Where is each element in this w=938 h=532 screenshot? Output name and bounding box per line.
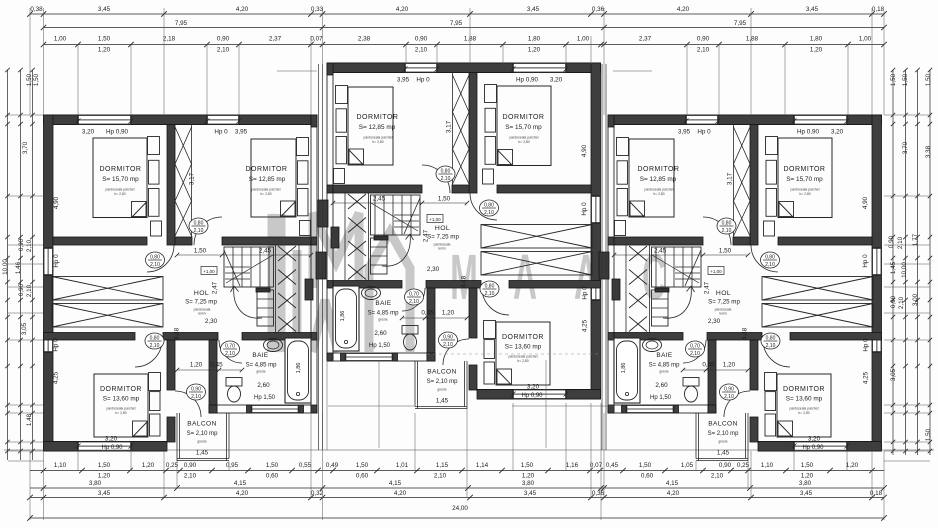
svg-text:3,70: 3,70 <box>22 141 29 154</box>
bed bedroom1 A <box>93 138 147 218</box>
svg-text:S= 7,25 mp: S= 7,25 mp <box>708 299 740 306</box>
svg-text:1,45: 1,45 <box>436 398 449 405</box>
svg-text:0,07: 0,07 <box>590 462 603 469</box>
svg-text:4,20: 4,20 <box>394 490 407 497</box>
svg-text:1,50: 1,50 <box>26 73 33 86</box>
sink A <box>264 339 283 352</box>
svg-text:Hp 0: Hp 0 <box>53 254 60 268</box>
unit C balcony walls <box>747 413 749 461</box>
unit C bathroom bottom wall <box>614 405 716 413</box>
svg-text:A: A <box>513 241 537 313</box>
svg-text:0,36: 0,36 <box>592 490 605 497</box>
svg-text:2,45: 2,45 <box>654 248 667 255</box>
svg-text:4,15: 4,15 <box>234 480 247 487</box>
svg-text:2,10: 2,10 <box>434 473 447 480</box>
svg-text:0,07: 0,07 <box>310 36 323 43</box>
svg-text:HOL: HOL <box>194 290 209 297</box>
svg-text:2,10: 2,10 <box>443 342 453 348</box>
svg-text:2,10: 2,10 <box>217 47 230 54</box>
unit A bottom exterior wall <box>44 441 168 443</box>
unit A exterior top wall <box>44 114 312 116</box>
svg-text:S= 2,10 mp: S= 2,10 mp <box>708 431 740 437</box>
svg-text:DORMITOR: DORMITOR <box>100 386 142 393</box>
svg-text:h= 2,80: h= 2,80 <box>517 359 529 363</box>
terrace edge lines <box>328 405 414 407</box>
unit B window bottom (1,50) <box>513 390 566 400</box>
left dimension band <box>7 70 9 460</box>
svg-text:3,38: 3,38 <box>925 145 932 158</box>
svg-text:DORMITOR: DORMITOR <box>246 166 288 173</box>
expansion joint A-B <box>318 64 320 450</box>
bathtub B <box>333 286 359 351</box>
unit C bathroom window (bottom) <box>627 405 674 413</box>
svg-text:Hp 0: Hp 0 <box>214 129 228 136</box>
svg-text:HOL: HOL <box>435 225 450 232</box>
svg-text:Hp 0,90: Hp 0,90 <box>516 77 539 84</box>
unit C door balcony <box>724 391 750 417</box>
svg-text:4,20: 4,20 <box>396 6 409 13</box>
svg-text:1,80: 1,80 <box>810 36 823 43</box>
svg-text:2,45: 2,45 <box>373 196 386 203</box>
svg-text:1,45: 1,45 <box>890 261 897 274</box>
svg-text:1,50: 1,50 <box>902 73 909 86</box>
svg-text:1,50: 1,50 <box>925 428 932 441</box>
svg-text:2,10: 2,10 <box>722 228 732 234</box>
unit B shaft strip <box>452 73 454 186</box>
unit B party wall right <box>327 63 333 361</box>
svg-text:+1,00: +1,00 <box>710 269 722 274</box>
svg-text:DORMITOR: DORMITOR <box>783 386 825 393</box>
svg-text:0,90: 0,90 <box>191 387 201 393</box>
svg-text:S= 7,25 mp: S= 7,25 mp <box>185 299 217 306</box>
svg-text:7,95: 7,95 <box>175 20 188 27</box>
svg-text:Hp 0,90: Hp 0,90 <box>106 129 129 136</box>
svg-text:1,50: 1,50 <box>639 462 652 469</box>
unit B interior dim ticks <box>564 67 569 72</box>
svg-text:4,15: 4,15 <box>666 480 679 487</box>
svg-text:1,48: 1,48 <box>26 413 33 426</box>
svg-text:0,55: 0,55 <box>299 462 312 469</box>
svg-text:h= 2,80: h= 2,80 <box>114 192 126 196</box>
svg-text:2,37: 2,37 <box>639 36 652 43</box>
svg-text:S= 12,85 mp: S= 12,85 mp <box>359 124 396 131</box>
bottom dimension band <box>30 470 884 472</box>
unit B left wall window (Hp 0) upper <box>591 196 601 223</box>
svg-text:2,30: 2,30 <box>708 318 721 325</box>
unit A bedroom3 right wall <box>167 340 175 390</box>
unit C door bedroom2 <box>703 217 731 245</box>
unit C door bedroom1 <box>751 245 778 272</box>
unit A bathroom bottom wall <box>209 405 311 413</box>
unit B balcony walls <box>466 361 468 409</box>
svg-text:0,25: 0,25 <box>737 462 750 469</box>
level line unit B <box>427 353 601 355</box>
unit C left wall window (Hp 0) upper <box>872 248 882 275</box>
svg-text:S= 4,85 mp: S= 4,85 mp <box>246 363 278 369</box>
unit B window W2 top (0,90) <box>405 63 437 73</box>
svg-text:pardoseala parchet: pardoseala parchet <box>363 136 392 140</box>
svg-text:2,10: 2,10 <box>26 284 33 297</box>
unit B door bathroom <box>402 288 425 311</box>
unit C stairs <box>652 247 702 287</box>
svg-text:1,00: 1,00 <box>54 36 67 43</box>
unit B door bedroom1 <box>470 193 497 220</box>
svg-text:Hp 0: Hp 0 <box>416 77 430 84</box>
svg-text:h= 2,80: h= 2,80 <box>518 140 530 144</box>
svg-text:2,60: 2,60 <box>257 382 270 389</box>
svg-text:1,15: 1,15 <box>436 462 449 469</box>
svg-text:S= 2,10 mp: S= 2,10 mp <box>187 431 219 437</box>
unit C party wall right <box>608 115 614 413</box>
left extension lines <box>8 114 44 116</box>
unit B exterior top wall <box>333 62 601 64</box>
unit A door bedroom2 <box>194 217 222 245</box>
right extension lines <box>884 114 930 116</box>
svg-text:2,45: 2,45 <box>259 248 272 255</box>
unit C door bedroom3 <box>763 340 790 367</box>
svg-text:0,45: 0,45 <box>702 362 715 369</box>
svg-text:0,90: 0,90 <box>184 462 197 469</box>
svg-text:2,10: 2,10 <box>765 262 775 268</box>
svg-text:4,20: 4,20 <box>236 6 249 13</box>
svg-text:1,50: 1,50 <box>719 248 732 255</box>
svg-text:0,45: 0,45 <box>421 310 434 317</box>
unit C door bathroom <box>683 340 706 363</box>
svg-text:2,18: 2,18 <box>163 36 176 43</box>
svg-text:Hp 1,50: Hp 1,50 <box>650 395 672 401</box>
bed bedroom1 B <box>497 86 551 166</box>
unit A hall-level wall <box>44 333 136 341</box>
wall extension marks <box>277 70 317 72</box>
svg-text:2,10: 2,10 <box>711 473 724 480</box>
unit C shaft strip <box>733 125 735 238</box>
svg-text:3,45: 3,45 <box>527 6 540 13</box>
unit C window W2 top (0,90) <box>686 115 718 125</box>
svg-text:BAIE: BAIE <box>656 352 672 359</box>
svg-text:1,86: 1,86 <box>340 311 346 322</box>
svg-text:S= 15,70 mp: S= 15,70 mp <box>786 176 823 183</box>
unit B window W1 top (1,50) <box>513 63 566 73</box>
unit A door bedroom1 <box>147 245 174 272</box>
unit A interior dim ticks <box>76 119 81 124</box>
unit A bedrooms bottom wall <box>53 237 147 245</box>
svg-text:S= 12,85 mp: S= 12,85 mp <box>249 176 286 183</box>
svg-text:gresie: gresie <box>256 370 265 374</box>
svg-text:3,45: 3,45 <box>800 490 813 497</box>
svg-text:lemn: lemn <box>198 312 205 316</box>
svg-text:1,46: 1,46 <box>15 261 22 274</box>
unit C bedroom3 right wall <box>750 340 758 390</box>
stair level label C <box>708 267 724 275</box>
svg-text:S= 12,85 mp: S= 12,85 mp <box>640 176 677 183</box>
watermark big letters <box>272 213 410 352</box>
unit A stairs <box>224 247 274 287</box>
svg-text:3,05: 3,05 <box>890 368 897 381</box>
svg-text:0,80: 0,80 <box>441 169 451 175</box>
svg-text:Hp 0,90: Hp 0,90 <box>521 393 543 399</box>
toilet B <box>402 326 418 335</box>
toilet A <box>226 378 242 387</box>
unit A window bottom (1,50) <box>78 442 131 452</box>
bathtub A <box>285 338 311 403</box>
svg-text:0,45: 0,45 <box>606 462 619 469</box>
svg-text:3,45: 3,45 <box>98 490 111 497</box>
unit A wall niche piers <box>305 279 313 300</box>
unit B wall between bedrooms W1 <box>469 73 477 194</box>
svg-text:0,25: 0,25 <box>166 462 179 469</box>
svg-text:S= 15,70 mp: S= 15,70 mp <box>102 176 139 183</box>
unit C left wall window (Hp 0) lower <box>872 334 882 352</box>
svg-text:3,20: 3,20 <box>82 129 95 136</box>
svg-text:4,90: 4,90 <box>862 196 869 209</box>
bed bedroom3 B <box>496 322 550 385</box>
svg-text:0,49: 0,49 <box>326 462 339 469</box>
svg-text:2,10: 2,10 <box>150 343 160 349</box>
unit B door balcony <box>443 339 469 365</box>
svg-text:1,50: 1,50 <box>98 462 111 469</box>
bed bedroom2 B <box>348 87 393 165</box>
svg-text:DORMITOR: DORMITOR <box>100 166 142 173</box>
svg-text:Hp 1,50: Hp 1,50 <box>254 395 276 401</box>
svg-text:pardoseala parchet: pardoseala parchet <box>251 188 280 192</box>
svg-text:+1,00: +1,00 <box>203 269 215 274</box>
unit A left wall window (Hp 0) upper <box>44 248 54 275</box>
svg-text:3,70: 3,70 <box>902 141 909 154</box>
svg-text:0,60: 0,60 <box>641 473 654 480</box>
svg-text:2,10: 2,10 <box>194 228 204 234</box>
svg-text:2,47: 2,47 <box>704 281 711 294</box>
svg-text:gresie: gresie <box>437 388 446 392</box>
unit A party wall right <box>311 115 317 413</box>
svg-text:pardoseala parchet: pardoseala parchet <box>789 407 818 411</box>
unit A left wall window (Hp 0) lower <box>44 334 54 352</box>
stair level label B <box>427 215 443 223</box>
unit B bottom exterior wall <box>477 389 601 391</box>
svg-text:gresie: gresie <box>197 440 206 444</box>
svg-text:0,90: 0,90 <box>724 387 734 393</box>
svg-text:3,17: 3,17 <box>727 172 734 185</box>
svg-text:1,20: 1,20 <box>142 462 155 469</box>
sink B <box>362 287 381 300</box>
svg-text:1,50: 1,50 <box>890 73 897 86</box>
svg-text:pardoseala parchet: pardoseala parchet <box>105 188 134 192</box>
svg-text:3,05: 3,05 <box>21 322 28 335</box>
svg-text:0,90: 0,90 <box>18 283 25 296</box>
sink C <box>643 339 662 352</box>
svg-text:1,20: 1,20 <box>810 47 823 54</box>
svg-text:4,90: 4,90 <box>581 144 588 157</box>
svg-text:4,90: 4,90 <box>53 196 60 209</box>
unit B bedrooms bottom wall <box>497 185 591 193</box>
unit C wall between bedrooms W1 <box>750 125 758 246</box>
unit A window W1 top (1,50) <box>78 115 131 125</box>
svg-text:4,20: 4,20 <box>667 490 680 497</box>
svg-text:3,80: 3,80 <box>89 480 102 487</box>
svg-text:3,45: 3,45 <box>98 6 111 13</box>
svg-text:2,30: 2,30 <box>427 266 440 273</box>
svg-text:2,10: 2,10 <box>724 394 734 400</box>
bed bedroom3 C <box>777 374 831 437</box>
unit C window bottom (1,50) <box>794 442 847 452</box>
svg-text:2,10: 2,10 <box>690 351 700 357</box>
svg-text:BAIE: BAIE <box>375 300 391 307</box>
watermark letter row <box>450 241 666 313</box>
svg-text:3,20: 3,20 <box>808 436 821 443</box>
svg-text:3,20: 3,20 <box>550 77 563 84</box>
svg-text:BAIE: BAIE <box>252 352 268 359</box>
svg-text:h= 2,80: h= 2,80 <box>653 192 665 196</box>
svg-text:1,10: 1,10 <box>761 462 774 469</box>
unit A stair upper-flight hatch <box>278 246 296 261</box>
unit C wall niche piers <box>612 279 620 300</box>
unit B door bedroom2 <box>422 165 450 193</box>
svg-text:HOL: HOL <box>716 290 731 297</box>
svg-text:0,70: 0,70 <box>690 344 700 350</box>
svg-text:1,50: 1,50 <box>98 36 111 43</box>
unit A door balcony <box>175 391 201 417</box>
svg-text:0,90: 0,90 <box>888 235 895 248</box>
bed bedroom1 C <box>778 138 832 218</box>
svg-text:+1,00: +1,00 <box>429 217 441 222</box>
svg-text:1,01: 1,01 <box>396 462 409 469</box>
svg-text:1,16: 1,16 <box>566 462 579 469</box>
unit C window W1 top (1,50) <box>794 115 847 125</box>
svg-text:0,45: 0,45 <box>210 362 223 369</box>
svg-text:1,20: 1,20 <box>528 47 541 54</box>
svg-text:Hp 0: Hp 0 <box>697 129 711 136</box>
svg-text:3,95: 3,95 <box>678 129 691 136</box>
svg-text:3,17: 3,17 <box>446 120 453 133</box>
svg-text:1,88: 1,88 <box>746 36 759 43</box>
svg-text:1,86: 1,86 <box>621 363 627 374</box>
svg-text:S= 4,85 mp: S= 4,85 mp <box>368 311 400 317</box>
unit C bottom exterior wall <box>758 441 882 443</box>
unit B stair upper-flight hatch <box>348 194 366 209</box>
svg-text:gresie: gresie <box>659 370 668 374</box>
svg-text:0,90: 0,90 <box>217 36 230 43</box>
right dimension band <box>892 70 894 455</box>
svg-text:3,20: 3,20 <box>527 384 540 391</box>
svg-text:4,48: 4,48 <box>174 327 181 340</box>
unit A exterior left wall <box>44 115 54 451</box>
svg-text:0,80: 0,80 <box>765 255 775 261</box>
svg-text:1,20: 1,20 <box>723 362 736 369</box>
svg-text:BALCON: BALCON <box>427 369 457 376</box>
svg-text:0,80: 0,80 <box>485 284 495 290</box>
svg-text:BALCON: BALCON <box>708 421 738 428</box>
svg-text:2,10: 2,10 <box>697 47 710 54</box>
unit C exterior top wall <box>614 114 882 116</box>
svg-text:S= 7,25 mp: S= 7,25 mp <box>427 234 459 241</box>
svg-text:pardoseala parchet: pardoseala parchet <box>790 188 819 192</box>
svg-text:2,10: 2,10 <box>898 296 905 309</box>
svg-text:1,00: 1,00 <box>859 36 872 43</box>
svg-text:pardoseala parchet: pardoseala parchet <box>644 188 673 192</box>
svg-text:3,45: 3,45 <box>524 490 537 497</box>
svg-text:2,10: 2,10 <box>225 351 235 357</box>
unit C interior dim ticks <box>845 119 850 124</box>
svg-text:DORMITOR: DORMITOR <box>357 114 399 121</box>
svg-text:4,25: 4,25 <box>582 319 589 332</box>
svg-text:2,10: 2,10 <box>26 239 33 252</box>
svg-text:1,45: 1,45 <box>196 450 209 457</box>
ground line <box>4 449 934 451</box>
svg-text:1,80: 1,80 <box>528 36 541 43</box>
svg-text:S= 15,70 mp: S= 15,70 mp <box>505 124 542 131</box>
unit B hall-level wall <box>509 281 601 289</box>
bottom extension lines <box>29 451 31 520</box>
svg-text:0,80: 0,80 <box>766 336 776 342</box>
svg-text:2,60: 2,60 <box>374 330 387 337</box>
svg-text:pardoseala parchet: pardoseala parchet <box>509 136 538 140</box>
svg-text:0,90: 0,90 <box>443 335 453 341</box>
svg-text:S= 13,60 mp: S= 13,60 mp <box>786 396 823 403</box>
svg-text:4,25: 4,25 <box>863 371 870 384</box>
unit A window W2 top (0,90) <box>207 115 239 125</box>
svg-text:2,47: 2,47 <box>212 281 219 294</box>
svg-text:Hp 1,50: Hp 1,50 <box>369 343 391 349</box>
svg-text:2,10: 2,10 <box>766 343 776 349</box>
svg-text:2,10: 2,10 <box>409 299 419 305</box>
unit C bathroom left wall <box>708 340 716 413</box>
svg-text:2,10: 2,10 <box>484 210 494 216</box>
svg-text:0,33: 0,33 <box>311 6 324 13</box>
svg-text:4,15: 4,15 <box>389 480 402 487</box>
svg-text:Hp 0: Hp 0 <box>862 254 869 268</box>
svg-text:2,10: 2,10 <box>150 262 160 268</box>
unit C exterior left wall <box>872 115 882 451</box>
svg-text:0,90: 0,90 <box>890 295 897 308</box>
svg-text:0,80: 0,80 <box>194 221 204 227</box>
svg-text:1,05: 1,05 <box>681 462 694 469</box>
svg-text:2,37: 2,37 <box>269 36 282 43</box>
svg-text:1,10: 1,10 <box>54 462 67 469</box>
svg-text:3,17: 3,17 <box>189 172 196 185</box>
svg-text:Hp 0: Hp 0 <box>581 202 588 216</box>
svg-text:0,80: 0,80 <box>722 221 732 227</box>
svg-text:2,10: 2,10 <box>897 236 904 249</box>
svg-text:2,10: 2,10 <box>415 47 428 54</box>
svg-text:0,90: 0,90 <box>697 36 710 43</box>
unit A bathroom left wall <box>209 340 217 413</box>
svg-text:2,38: 2,38 <box>358 36 371 43</box>
svg-text:4,20: 4,20 <box>677 6 690 13</box>
top dimension band <box>30 13 884 15</box>
svg-text:Hp 0: Hp 0 <box>582 286 589 300</box>
svg-text:0,90: 0,90 <box>719 462 732 469</box>
svg-text:DORMITOR: DORMITOR <box>502 334 544 341</box>
unit B left wall window (Hp 0) lower <box>591 282 601 300</box>
svg-text:h= 2,80: h= 2,80 <box>372 140 384 144</box>
svg-text:1,50: 1,50 <box>33 73 40 86</box>
svg-text:4,25: 4,25 <box>53 371 60 384</box>
svg-text:1,14: 1,14 <box>476 462 489 469</box>
svg-text:3,20: 3,20 <box>105 436 118 443</box>
unit C hall-level wall <box>790 333 882 341</box>
unit C stair upper-flight hatch <box>629 246 647 261</box>
svg-text:3,95: 3,95 <box>397 77 410 84</box>
svg-text:S= 13,60 mp: S= 13,60 mp <box>505 344 542 351</box>
svg-text:0,70: 0,70 <box>225 344 235 350</box>
svg-text:3,45: 3,45 <box>806 6 819 13</box>
svg-text:0,95: 0,95 <box>226 462 239 469</box>
svg-text:Hp 0,90: Hp 0,90 <box>797 129 820 136</box>
svg-text:2,60: 2,60 <box>655 382 668 389</box>
svg-text:2,10: 2,10 <box>485 291 495 297</box>
svg-text:3,00: 3,00 <box>912 293 919 306</box>
svg-text:7,95: 7,95 <box>450 20 463 27</box>
unit A shaft strip <box>191 125 193 238</box>
